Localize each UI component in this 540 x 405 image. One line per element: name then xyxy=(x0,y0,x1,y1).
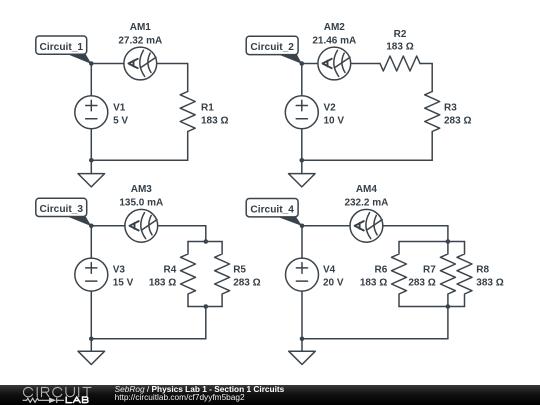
label flag Circuit_1 xyxy=(67,54,92,64)
node Circuit_3 junction dot xyxy=(89,224,94,229)
ammeter AM4 xyxy=(350,209,383,242)
junction dot R4/R5 parallel bottom xyxy=(204,304,209,309)
svg-text:183 Ω: 183 Ω xyxy=(386,42,413,53)
resistor R6 xyxy=(392,242,407,307)
resistor R3 xyxy=(425,92,440,132)
svg-text:V3: V3 xyxy=(113,264,126,275)
wire left upper xyxy=(90,226,92,258)
voltage source V1 xyxy=(75,96,108,129)
wire top left: node to ammeter xyxy=(91,225,125,227)
wire left lower: V1 to bottom xyxy=(90,129,92,161)
wire left upper xyxy=(301,226,303,258)
logo CIRCUIT xyxy=(24,387,91,396)
resistor R2 xyxy=(380,56,420,71)
junction dot bottom ground net xyxy=(300,158,305,163)
svg-text:V2: V2 xyxy=(324,102,337,113)
wire: R2 to corner xyxy=(420,63,432,65)
wire left upper: node to V1 xyxy=(90,64,92,96)
wire right lower lead xyxy=(431,132,433,161)
svg-text:R8: R8 xyxy=(476,264,489,275)
svg-text:5 V: 5 V xyxy=(113,116,128,127)
wire top left: node to ammeter xyxy=(302,63,318,65)
resistor R5 xyxy=(215,242,230,307)
svg-text:R3: R3 xyxy=(444,103,457,114)
ground xyxy=(90,339,92,351)
svg-text:20 V: 20 V xyxy=(323,278,344,289)
wire left lower xyxy=(301,291,303,339)
resistor R1 xyxy=(180,92,195,132)
wire bottom xyxy=(302,338,448,340)
svg-text:Circuit_3: Circuit_3 xyxy=(40,204,84,215)
wire bottom xyxy=(302,159,432,161)
ground xyxy=(301,160,303,173)
wire top left: node to ammeter xyxy=(302,225,350,227)
svg-text:AM3: AM3 xyxy=(131,184,153,195)
voltage source V3 xyxy=(75,258,108,291)
svg-text:Circuit_4: Circuit_4 xyxy=(250,204,294,215)
ground xyxy=(301,339,303,351)
top bar of parallel set xyxy=(399,241,465,243)
svg-text:10 V: 10 V xyxy=(324,116,345,127)
wire top right: ammeter to corner xyxy=(157,63,188,65)
svg-text:383 Ω: 383 Ω xyxy=(476,278,503,289)
wire top left: node to ammeter xyxy=(91,63,124,65)
svg-text:183 Ω: 183 Ω xyxy=(201,116,228,127)
svg-text:V4: V4 xyxy=(323,264,336,275)
resistor R7 xyxy=(440,242,455,307)
junction dot bottom ground net xyxy=(89,158,94,163)
svg-text:AM2: AM2 xyxy=(324,22,346,33)
svg-text:AM4: AM4 xyxy=(356,184,378,195)
junction dot bottom ground net xyxy=(89,337,94,342)
junction dot R6/R7/R8 parallel bottom xyxy=(446,304,451,309)
svg-text:Circuit_2: Circuit_2 xyxy=(250,42,294,53)
wire left lower xyxy=(90,291,92,339)
wire right upper lead to R1 xyxy=(187,64,189,92)
svg-text:R2: R2 xyxy=(394,29,407,40)
wire right lower lead from R1 xyxy=(187,132,189,161)
node Circuit_2 junction dot xyxy=(300,61,305,66)
svg-text:183 Ω: 183 Ω xyxy=(360,278,387,289)
svg-text:V1: V1 xyxy=(113,102,126,113)
svg-text:283 Ω: 283 Ω xyxy=(444,116,471,127)
node Circuit_1 junction dot xyxy=(89,61,94,66)
svg-text:232.2 mA: 232.2 mA xyxy=(344,198,388,209)
logo squiggle: resistor + diode xyxy=(23,398,64,403)
svg-text:R4: R4 xyxy=(164,264,177,275)
svg-text:Circuit_1: Circuit_1 xyxy=(40,42,84,53)
bottom bar of parallel pair xyxy=(188,306,222,308)
junction dot R4/R5 parallel top xyxy=(204,239,209,244)
ammeter AM3 xyxy=(125,209,158,242)
wire: ammeter to R2 xyxy=(351,63,380,65)
ground xyxy=(90,160,92,173)
svg-text:21.46 mA: 21.46 mA xyxy=(312,35,356,46)
svg-text:AM1: AM1 xyxy=(130,22,152,33)
resistor R4 xyxy=(181,242,196,307)
wire down from parallel bottom junction xyxy=(447,307,449,339)
wire down to parallel top junction xyxy=(447,226,449,242)
voltage source V2 xyxy=(285,96,318,129)
wire down from parallel bottom junction xyxy=(205,307,207,339)
svg-text:27.32 mA: 27.32 mA xyxy=(118,35,162,46)
wire top right: ammeter to corner xyxy=(383,225,448,227)
svg-text:R1: R1 xyxy=(201,103,214,114)
logo LAB xyxy=(66,397,88,403)
node Circuit_4 junction dot xyxy=(300,224,305,229)
svg-text:http://circuitlab.com/cf7dyyfm: http://circuitlab.com/cf7dyyfm5bag2 xyxy=(115,392,245,402)
svg-text:R5: R5 xyxy=(233,264,246,275)
svg-text:183 Ω: 183 Ω xyxy=(149,278,176,289)
svg-text:283 Ω: 283 Ω xyxy=(233,278,260,289)
top bar of parallel pair xyxy=(188,241,222,243)
wire bottom xyxy=(91,159,187,161)
wire right upper lead xyxy=(431,64,433,92)
wire left upper xyxy=(301,64,303,96)
wire down to parallel top junction xyxy=(205,226,207,242)
junction dot R6/R7/R8 parallel top xyxy=(446,239,451,244)
junction dot bottom ground net xyxy=(300,337,305,342)
svg-text:135.0 mA: 135.0 mA xyxy=(119,198,163,209)
wire left lower xyxy=(301,129,303,161)
resistor R8 xyxy=(457,242,472,307)
bottom bar of parallel set xyxy=(399,306,465,308)
svg-text:15 V: 15 V xyxy=(113,278,134,289)
label flag Circuit_4 xyxy=(277,217,302,226)
label flag Circuit_3 xyxy=(67,216,92,226)
wire top right: ammeter to corner xyxy=(158,225,206,227)
label flag Circuit_2 xyxy=(278,54,302,64)
svg-text:R6: R6 xyxy=(375,264,388,275)
ammeter AM2 xyxy=(318,47,351,80)
svg-text:283 Ω: 283 Ω xyxy=(408,278,435,289)
svg-text:R7: R7 xyxy=(423,264,436,275)
wire bottom xyxy=(91,338,206,340)
voltage source V4 xyxy=(286,258,319,291)
ammeter AM1 xyxy=(124,47,157,80)
